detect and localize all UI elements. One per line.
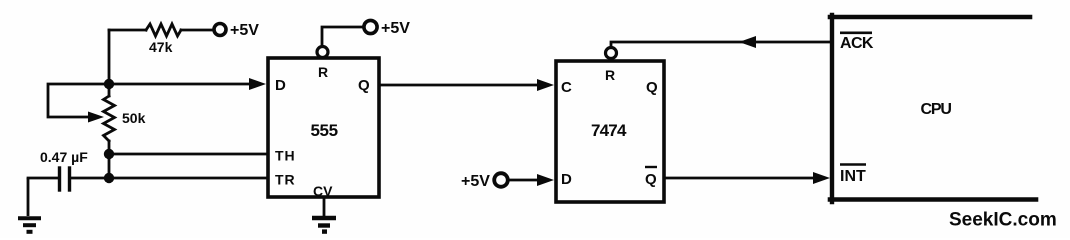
capacitor C1 [60,168,70,190]
svg-text:+5V: +5V [230,22,259,39]
svg-text:Q: Q [358,77,370,94]
svg-text:Q: Q [646,79,658,96]
CPU block bottom bus line [830,197,1036,202]
wire C1 left lead [28,177,58,180]
CPU label INT [840,165,866,186]
inverting bubble on 7474 R pin [606,48,617,59]
wire top to resistor R1 [109,29,146,32]
IC U1 555 box [268,58,379,197]
wire C1 to TR (555) [71,177,268,180]
node junction C (TR) [104,173,114,183]
wire R1 to +5V terminal [181,29,213,32]
svg-text:0.47 µF: 0.47 µF [40,149,88,165]
svg-text:ACK: ACK [840,35,874,52]
svg-text:7474: 7474 [591,121,627,140]
inverting bubble on 555 R pin [317,47,328,58]
7474 pin label Qbar [645,167,657,188]
CPU label ACK [840,33,874,52]
svg-text:TH: TH [275,148,296,164]
wire +5V to 7474 D [508,179,540,182]
node junction B (TH) [104,149,114,159]
power +5V terminal T2 [364,20,377,33]
ground GND2 under 555 [312,197,336,232]
arrow into 7474 D [537,174,554,186]
wiper arrow of R2 [88,112,104,123]
power +5V terminal T1 [214,24,226,36]
svg-text:D: D [561,171,572,188]
svg-text:50k: 50k [122,110,146,126]
svg-text:D: D [275,77,286,94]
svg-text:CPU: CPU [921,101,952,118]
wire wiper loop of R2 [48,84,107,117]
svg-text:TR: TR [275,172,296,188]
svg-text:C: C [561,79,572,96]
svg-text:Q: Q [645,171,657,188]
arrow into 555 D [249,78,266,90]
wire 555 R to +5V [322,27,363,46]
wire to D input of 555 [109,83,252,86]
arrow into CPU INT [813,172,830,184]
svg-text:+5V: +5V [381,20,410,37]
svg-text:R: R [318,64,328,80]
wire CPU ACK to 7474 R [611,42,830,47]
wire TH to 555 [109,153,268,156]
CPU block top bus line [830,15,1030,20]
resistor R1 47k [146,24,181,36]
svg-text:R: R [605,67,615,83]
wire 555 Q to 7474 C [379,84,540,87]
svg-text:555: 555 [311,121,338,140]
node junction A (top of pot) [104,79,114,89]
ground GND1 [18,178,41,232]
potentiometer R2 50k [104,96,115,141]
arrow into 7474 C [537,79,554,91]
wire 7474 Qbar to CPU INT [664,177,816,180]
arrow toward 7474 R (left) [739,36,756,48]
wire vertical bus [108,30,111,178]
svg-text:INT: INT [840,168,866,185]
CPU block left edge [830,15,834,202]
svg-text:CV: CV [313,183,333,199]
svg-text:SeekIC.com: SeekIC.com [949,210,1057,231]
svg-text:+5V: +5V [461,173,490,190]
power +5V terminal T3 [494,173,508,187]
IC U2 7474 box [556,61,664,202]
svg-text:47k: 47k [149,39,173,55]
